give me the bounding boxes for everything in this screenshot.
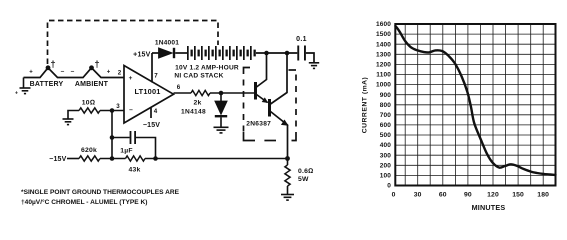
svg-text:0.1: 0.1 [296, 36, 307, 43]
svg-text:−15V: −15V [49, 156, 66, 163]
svg-text:200: 200 [380, 162, 392, 169]
node ambient thermocouple junction [89, 65, 94, 70]
svg-text:10V 1.2 AMP-HOUR: 10V 1.2 AMP-HOUR [175, 65, 239, 72]
node C2 rejoin [153, 156, 158, 161]
ground at 10 ohm resistor [63, 111, 80, 125]
node pin 3 junction [110, 108, 115, 113]
svg-text:*SINGLE POINT GROUND THERMOCOU: *SINGLE POINT GROUND THERMOCOUPLES ARE [21, 189, 180, 196]
svg-text:800: 800 [380, 102, 392, 109]
svg-text:2: 2 [118, 70, 122, 77]
wire thermocouple baseline to op-amp pin 2 [24, 68, 125, 78]
node rail to Q1 collector [264, 51, 269, 56]
svg-text:2k: 2k [194, 99, 202, 106]
op-amp U1 LT1001 [124, 66, 174, 124]
wire pin 7 to +15V rail [151, 53, 153, 83]
svg-text:600: 600 [380, 122, 392, 129]
svg-text:620k: 620k [81, 147, 97, 154]
svg-text:3: 3 [116, 103, 120, 110]
svg-text:+: + [15, 91, 18, 97]
wire pin 4 to -15V [150, 108, 152, 118]
svg-text:NI CAD STACK: NI CAD STACK [174, 72, 223, 79]
wire to capacitor C2 [112, 137, 130, 139]
svg-text:MINUTES: MINUTES [472, 203, 506, 212]
graph gridlines [395, 24, 555, 186]
transistor Q1 (darlington input) [254, 53, 268, 103]
wire diode to battery stack [175, 52, 187, 54]
graph curve: charger output current vs minutes [396, 26, 556, 175]
ground at C1 [309, 63, 319, 69]
svg-text:43k: 43k [129, 167, 141, 174]
wire op-amp output to 2k [174, 92, 192, 94]
svg-text:+: + [129, 75, 133, 82]
graph y-axis labels [376, 21, 391, 190]
svg-text:BATTERY: BATTERY [30, 81, 64, 88]
dashed package box around darlington [244, 68, 297, 141]
wire pin3 node down to feedback row [111, 111, 113, 159]
svg-text:0: 0 [387, 183, 391, 190]
wire feedback row to 0.6 ohm node [145, 158, 287, 160]
svg-text:+: + [107, 70, 111, 76]
svg-text:60: 60 [439, 192, 447, 199]
svg-text:1000: 1000 [376, 82, 391, 89]
svg-text:4: 4 [154, 108, 158, 115]
svg-text:0.6Ω: 0.6Ω [298, 168, 313, 175]
battery BT1 NiCad stack cells [187, 46, 256, 60]
wire +V rail battery to capacitor C1 [256, 52, 297, 54]
capacitor C2 1uF [130, 131, 136, 144]
wire R1 to pin 3 [100, 110, 124, 112]
svg-text:400: 400 [380, 142, 392, 149]
svg-text:CURRENT (mA): CURRENT (mA) [362, 77, 369, 134]
svg-text:120: 120 [487, 192, 499, 199]
svg-text:1600: 1600 [376, 21, 391, 28]
svg-text:7: 7 [154, 73, 158, 80]
svg-text:1400: 1400 [376, 41, 391, 48]
graph x-axis labels [392, 192, 550, 199]
svg-text:–: – [61, 68, 65, 75]
wire +15V corner to diode D1 [152, 52, 159, 54]
svg-text:–: – [129, 107, 133, 114]
resistor R4 2k [191, 90, 210, 95]
svg-text:1N4001: 1N4001 [155, 40, 179, 47]
svg-text:−15V: −15V [143, 122, 160, 129]
dashed thermal-coupling line from battery junction to NiCad stack [48, 21, 219, 65]
diode D2 1N4148 [215, 93, 227, 127]
resistor R2 620k [79, 156, 100, 161]
svg-text:+15V: +15V [133, 51, 150, 58]
svg-text:100: 100 [380, 173, 392, 180]
ground chassis at battery thermocouple [15, 78, 30, 97]
wire R2 to node [100, 158, 126, 160]
svg-text:10Ω: 10Ω [82, 99, 95, 106]
transistor Q2 (darlington output) [268, 53, 289, 159]
ground at R5 [281, 195, 294, 201]
wire 0.6 ohm to ground [287, 186, 289, 194]
svg-text:+: + [29, 70, 33, 76]
svg-text:1200: 1200 [376, 62, 391, 69]
svg-text:AMBIENT: AMBIENT [75, 81, 109, 88]
svg-text:900: 900 [380, 92, 392, 99]
node rail to Q2 collector [285, 51, 290, 56]
svg-text:†: † [94, 59, 99, 70]
svg-text:0: 0 [392, 192, 396, 199]
svg-text:†: † [50, 59, 55, 70]
svg-text:2N6387: 2N6387 [246, 120, 271, 127]
node 620k/43k junction [110, 156, 115, 161]
node emitter / 0.6 ohm junction [285, 156, 290, 161]
svg-text:–: – [71, 68, 75, 75]
svg-text:700: 700 [380, 112, 392, 119]
svg-text:1300: 1300 [376, 51, 391, 58]
svg-text:1N4148: 1N4148 [181, 109, 206, 116]
svg-text:†40µV/°C CHROMEL - ALUMEL (TYP: †40µV/°C CHROMEL - ALUMEL (TYPE K) [21, 198, 147, 206]
resistor R1 10 ohm [79, 108, 100, 113]
svg-text:6: 6 [177, 84, 181, 91]
svg-text:LT1001: LT1001 [134, 87, 160, 96]
svg-text:90: 90 [464, 192, 472, 199]
resistor R5 0.6 ohm 5W [285, 165, 290, 186]
diode D1 1N4001 [159, 48, 176, 58]
graph plot border [395, 24, 555, 186]
resistor R3 43k [126, 156, 146, 161]
svg-text:300: 300 [380, 152, 392, 159]
wire 2k to Q1 base [210, 92, 255, 94]
wire capacitor C1 to ground [306, 53, 314, 63]
capacitor C1 0.1 [297, 46, 306, 61]
svg-text:30: 30 [414, 192, 422, 199]
svg-text:180: 180 [537, 192, 549, 199]
svg-text:150: 150 [512, 192, 524, 199]
wire C2 to 43k node [136, 138, 156, 159]
ground at D2 [214, 127, 229, 133]
svg-text:1100: 1100 [376, 72, 391, 79]
node battery thermocouple junction [46, 65, 51, 70]
svg-text:500: 500 [380, 132, 392, 139]
node diode D2 tap [219, 91, 224, 96]
wire node to 0.6 ohm [287, 159, 289, 166]
wire -15V to 620k [67, 158, 79, 160]
svg-text:1500: 1500 [376, 31, 391, 38]
svg-text:5W: 5W [298, 176, 309, 183]
svg-text:1µF: 1µF [120, 148, 132, 155]
node capacitor branch tee [110, 135, 115, 140]
